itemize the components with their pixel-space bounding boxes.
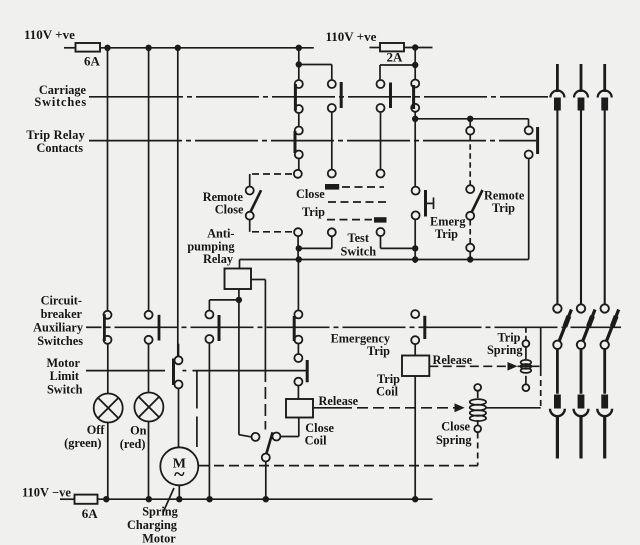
svg-text:110V −ve: 110V −ve [22, 486, 71, 500]
svg-text:Relay: Relay [203, 252, 234, 266]
svg-text:Switches: Switches [37, 334, 83, 348]
svg-text:Auxiliary: Auxiliary [33, 321, 84, 335]
svg-text:Motor: Motor [142, 532, 176, 545]
svg-text:Close: Close [215, 203, 244, 217]
svg-text:(green): (green) [64, 436, 101, 450]
svg-text:breaker: breaker [41, 307, 83, 321]
svg-text:Limit: Limit [50, 369, 80, 383]
svg-text:Charging: Charging [127, 518, 178, 532]
svg-text:6A: 6A [82, 506, 99, 521]
svg-text:Contacts: Contacts [37, 141, 84, 155]
svg-text:Circuit-: Circuit- [41, 294, 82, 308]
svg-text:Coil: Coil [376, 385, 398, 399]
svg-text:Spring: Spring [487, 343, 523, 357]
svg-text:On: On [130, 424, 147, 438]
svg-text:Switch: Switch [47, 383, 83, 397]
svg-text:~: ~ [174, 464, 185, 486]
svg-text:Release: Release [319, 394, 359, 408]
svg-text:Trip Relay: Trip Relay [26, 128, 85, 142]
svg-text:Switch: Switch [341, 245, 377, 259]
svg-text:110V +ve: 110V +ve [326, 29, 377, 44]
svg-text:Motor: Motor [47, 356, 81, 370]
svg-text:Trip: Trip [367, 344, 390, 358]
svg-text:Anti-: Anti- [207, 227, 234, 241]
svg-text:Switches: Switches [34, 95, 87, 109]
svg-text:Trip: Trip [492, 201, 515, 215]
svg-text:Coil: Coil [305, 434, 327, 448]
svg-text:Off: Off [87, 423, 106, 437]
svg-text:Close: Close [441, 420, 470, 434]
svg-text:Test: Test [348, 231, 370, 245]
svg-text:Trip: Trip [435, 227, 458, 241]
svg-text:Spring: Spring [142, 505, 178, 519]
svg-text:110V +ve: 110V +ve [24, 27, 75, 42]
svg-text:Release: Release [433, 353, 473, 367]
svg-text:Trip: Trip [302, 205, 325, 219]
svg-text:6A: 6A [84, 54, 101, 69]
svg-text:Close: Close [296, 187, 325, 201]
svg-text:2A: 2A [387, 50, 404, 65]
svg-text:Spring: Spring [436, 433, 472, 447]
svg-text:(red): (red) [120, 437, 146, 451]
